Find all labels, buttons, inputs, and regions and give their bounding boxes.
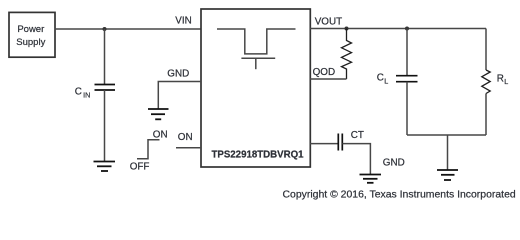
svg-text:CT: CT (351, 130, 364, 141)
wire: junction down to CL (406, 29, 408, 76)
node: junction at QOD resistor (345, 27, 349, 31)
wire: GND pin to ground (158, 82, 201, 109)
svg-text:Copyright © 2016, Texas Instru: Copyright © 2016, Texas Instruments Inco… (283, 189, 516, 200)
svg-text:GND: GND (167, 69, 189, 80)
svg-text:QOD: QOD (313, 67, 336, 78)
wire: bottom rail CL to RL (407, 134, 486, 136)
wire: RL down to bottom rail (485, 94, 487, 136)
node: junction at CL (405, 27, 409, 31)
MOSFET (pass FET inside IC) (217, 29, 296, 69)
ground (load) (437, 170, 458, 180)
svg-text:GND: GND (383, 158, 405, 169)
svg-text:RL: RL (497, 73, 508, 86)
svg-text:CL: CL (377, 72, 388, 85)
svg-text:TPS22918TDBVRQ1: TPS22918TDBVRQ1 (211, 150, 304, 161)
power supply box (9, 12, 55, 57)
wire: bottom rail to load ground (447, 135, 449, 170)
capacitor CT (338, 134, 342, 151)
ON/OFF control waveform (137, 140, 160, 159)
svg-text:Supply: Supply (16, 37, 45, 48)
wire: CT pin to capacitor (310, 143, 338, 145)
svg-text:Power: Power (17, 24, 44, 35)
wire: ON pin (176, 147, 201, 149)
wire: power supply to VIN pin (55, 28, 202, 30)
capacitor CL (396, 76, 418, 82)
svg-text:VOUT: VOUT (315, 17, 342, 28)
wire: RL branch (top corner down to zigzag) (485, 29, 487, 71)
wire: CIN to ground (104, 90, 106, 161)
capacitor CIN (95, 85, 116, 91)
ground (CT) (360, 175, 382, 183)
node: junction at CIN (103, 27, 107, 31)
wire: VOUT rail (310, 28, 486, 30)
svg-text:ON: ON (178, 132, 193, 143)
wire: junction down to CIN (104, 29, 106, 84)
IC U1 TPS22918TDBVRQ1 box (201, 9, 310, 167)
wire: CL down to bottom rail (406, 82, 408, 135)
svg-text:CIN: CIN (75, 86, 91, 99)
svg-text:VIN: VIN (175, 16, 191, 27)
svg-text:OFF: OFF (130, 162, 150, 173)
wire: CT to ground (342, 144, 370, 174)
wire: QOD pin (310, 78, 347, 80)
resistor RL (482, 70, 490, 94)
ground (GND pin) (148, 109, 169, 119)
resistor (QOD pull-down) (342, 29, 352, 80)
ground (below CIN) (94, 162, 116, 172)
svg-text:ON: ON (153, 130, 168, 141)
